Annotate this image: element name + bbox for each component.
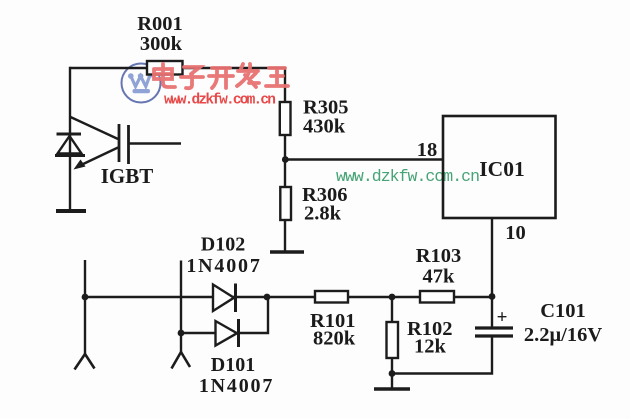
diode D101: [199, 319, 274, 397]
transistor IGBT: [71, 117, 182, 188]
wire D101 branch: [181, 297, 268, 333]
svg-text:C101: C101: [540, 300, 586, 322]
wire pin 18 to IC01: [285, 158, 443, 160]
svg-text:430k: 430k: [303, 116, 346, 138]
node junction R102/C101 return: [389, 370, 396, 377]
char kai: [209, 68, 233, 88]
svg-text:1N4007: 1N4007: [199, 375, 274, 397]
diode across IGBT (unlabeled): [55, 134, 85, 156]
resistor R001: [147, 61, 183, 75]
char dian: [154, 64, 175, 87]
resistor R306: [280, 187, 291, 220]
wire top horizontal from left rail to R305 rail: [70, 67, 285, 69]
resistor R305: [280, 102, 291, 135]
node stub 2 terminal: [172, 261, 191, 369]
svg-text:D102: D102: [201, 234, 245, 256]
char fa: [237, 64, 259, 87]
ground under R306: [270, 250, 304, 254]
wire main bottom horizontal: [85, 296, 492, 298]
op-amp IC01 box: [443, 116, 556, 218]
svg-text:47k: 47k: [423, 266, 456, 288]
node junction R101/R102/R103: [389, 294, 396, 301]
char zi: [181, 67, 203, 88]
svg-text:+: +: [497, 307, 508, 328]
svg-text:300k: 300k: [140, 33, 183, 55]
svg-text:10: 10: [505, 222, 526, 244]
svg-text:www.dzkfw.com.cn: www.dzkfw.com.cn: [336, 167, 480, 186]
node junction pin10/C101: [489, 293, 496, 300]
svg-text:1N4007: 1N4007: [186, 255, 261, 277]
watermark chinese text (drawn as vector strokes: dian zi kai fa wang): [154, 64, 288, 88]
wire left vertical rail: [69, 67, 71, 210]
svg-text:R001: R001: [137, 13, 183, 35]
char wang: [266, 68, 288, 86]
svg-text:820k: 820k: [313, 328, 356, 350]
svg-text:R103: R103: [416, 245, 462, 267]
svg-text:D101: D101: [211, 354, 255, 376]
svg-text:IC01: IC01: [479, 157, 524, 181]
node junction R305/R306/pin18: [282, 156, 289, 163]
ground under R102: [374, 387, 410, 391]
resistor R103: [420, 291, 454, 303]
wire R305 rail vertical: [284, 67, 286, 102]
diode D102: [186, 234, 261, 313]
watermark logo circle-W: [122, 64, 161, 103]
wire pin 10 from IC01 down: [491, 218, 493, 327]
wire between R305 and R306: [284, 135, 286, 187]
wire R306 to ground: [284, 220, 286, 251]
svg-text:IGBT: IGBT: [101, 164, 154, 188]
svg-text:2.8k: 2.8k: [304, 203, 342, 225]
resistor R102: [387, 297, 453, 388]
svg-text:www.dzkfw.com.cn: www.dzkfw.com.cn: [164, 93, 276, 109]
ground under IGBT: [56, 209, 86, 213]
svg-text:18: 18: [417, 139, 438, 161]
resistor R101: [315, 291, 348, 303]
svg-text:12k: 12k: [414, 336, 447, 358]
capacitor C101: [475, 300, 602, 346]
svg-text:2.2μ/16V: 2.2μ/16V: [524, 324, 602, 346]
node junction D102/D101: [264, 294, 271, 301]
wire C101 bottom return to R102: [392, 337, 492, 374]
node stub 1 terminal: [75, 260, 95, 370]
